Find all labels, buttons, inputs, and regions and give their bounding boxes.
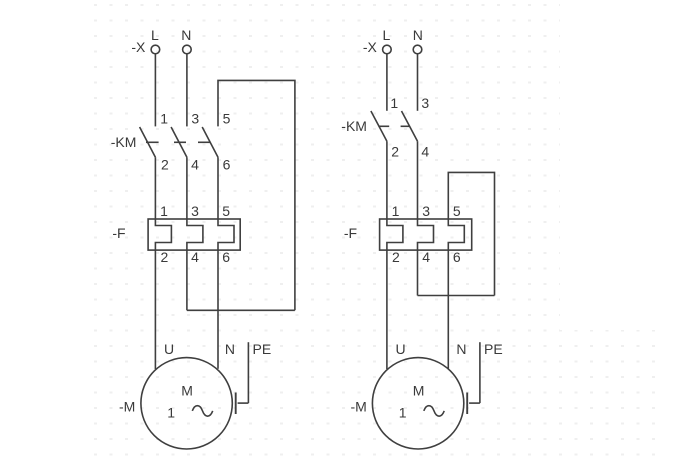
terminal circle N (left) xyxy=(183,45,192,54)
KM pole1 blade (right) xyxy=(371,111,387,141)
svg-text:6: 6 xyxy=(222,249,230,265)
wire loop pole3 top (left): up, right, down xyxy=(218,80,295,310)
wire KM pole1 to F (left) xyxy=(154,157,156,219)
svg-text:N: N xyxy=(225,341,235,357)
svg-text:-F: -F xyxy=(344,225,357,241)
svg-text:3: 3 xyxy=(191,110,199,126)
F heater element pole1 (left) xyxy=(155,219,171,250)
wire L to KM pole1 (right) xyxy=(386,54,388,111)
wire F pole1 to motor U (right) xyxy=(386,250,388,369)
wire horizontal pole2 to loop (right) xyxy=(418,295,495,297)
PE terminal bar (left) xyxy=(235,393,237,415)
svg-text:5: 5 xyxy=(222,203,230,219)
svg-text:2: 2 xyxy=(161,249,169,265)
wire PE horizontal (right) xyxy=(469,402,480,404)
wire KM pole2 to F (left) xyxy=(186,157,188,219)
svg-text:-X: -X xyxy=(131,39,146,55)
svg-text:4: 4 xyxy=(191,249,199,265)
svg-text:1: 1 xyxy=(390,95,398,111)
svg-text:5: 5 xyxy=(223,110,231,126)
svg-text:1: 1 xyxy=(392,203,400,219)
svg-text:2: 2 xyxy=(391,144,399,160)
F heater element pole2 (left) xyxy=(187,219,203,250)
overload relay F box (right) xyxy=(380,219,472,250)
svg-text:5: 5 xyxy=(453,203,461,219)
svg-text:N: N xyxy=(456,341,466,357)
PE terminal bar (right) xyxy=(466,393,468,415)
motor M2 circle (right) xyxy=(372,358,463,449)
KM pole2 blade (left) xyxy=(171,127,187,157)
KM pole3 blade (left) xyxy=(202,127,218,157)
wire PE horizontal (left) xyxy=(238,402,249,404)
svg-text:-KM: -KM xyxy=(341,118,367,134)
wire L to KM pole1 (left) xyxy=(154,54,156,126)
F heater element pole1 (right) xyxy=(387,219,403,250)
KM linkage dashed line (left) xyxy=(146,141,210,143)
F heater element pole3 (left) xyxy=(218,219,234,250)
svg-text:-F: -F xyxy=(112,225,125,241)
KM pole2 blade (right) xyxy=(402,111,418,141)
svg-text:3: 3 xyxy=(191,203,199,219)
terminal circle L (right) xyxy=(383,45,392,54)
svg-text:3: 3 xyxy=(421,95,429,111)
wire horizontal pole2 to loop (left) xyxy=(187,309,295,311)
svg-text:6: 6 xyxy=(453,249,461,265)
terminal circle N (right) xyxy=(413,45,422,54)
svg-text:-M: -M xyxy=(119,399,135,415)
svg-text:1: 1 xyxy=(167,405,175,421)
svg-text:M: M xyxy=(413,383,425,399)
wire F pole2 down to junction (right) xyxy=(417,250,419,295)
wire loop F pole3 (right): up, right, down xyxy=(448,172,494,295)
wire KM pole2 to F (right) xyxy=(417,141,419,219)
svg-text:1: 1 xyxy=(160,110,168,126)
svg-text:4: 4 xyxy=(191,157,199,173)
svg-text:-X: -X xyxy=(363,39,378,55)
svg-text:4: 4 xyxy=(421,144,429,160)
svg-text:1: 1 xyxy=(160,203,168,219)
svg-text:U: U xyxy=(396,341,406,357)
svg-text:6: 6 xyxy=(223,157,231,173)
svg-text:M: M xyxy=(181,383,193,399)
motor M1 circle (left) xyxy=(141,358,232,449)
wire F pole3 to motor N (left) xyxy=(217,250,219,369)
svg-text:L: L xyxy=(383,27,391,43)
wire F pole1 to motor U (left) xyxy=(154,250,156,369)
overload relay F box (left) xyxy=(148,219,240,250)
svg-text:PE: PE xyxy=(253,341,272,357)
svg-text:2: 2 xyxy=(392,249,400,265)
wire PE vertical (right) xyxy=(479,342,481,403)
svg-text:1: 1 xyxy=(399,405,407,421)
svg-text:N: N xyxy=(413,27,423,43)
terminal circle L (left) xyxy=(151,45,160,54)
KM linkage dashed line (right) xyxy=(379,125,410,127)
F heater element pole3 (right) xyxy=(448,219,464,250)
motor sine symbol (right) xyxy=(424,406,444,417)
wire KM pole3 to F (left) xyxy=(217,157,219,219)
motor sine symbol (left) xyxy=(192,406,212,417)
wire KM pole1 to F (right) xyxy=(386,141,388,219)
wire PE vertical (left) xyxy=(247,342,249,403)
wire F pole3 to motor N (right) xyxy=(447,250,449,369)
wire N to KM pole2 (right) xyxy=(417,54,419,111)
wire N to KM pole2 (left) xyxy=(186,54,188,126)
svg-text:3: 3 xyxy=(422,203,430,219)
svg-text:2: 2 xyxy=(161,157,169,173)
svg-text:4: 4 xyxy=(422,249,430,265)
wire F pole2 down to junction (left) xyxy=(186,250,188,310)
F heater element pole2 (right) xyxy=(418,219,434,250)
svg-text:PE: PE xyxy=(484,341,503,357)
svg-text:L: L xyxy=(151,27,159,43)
svg-text:U: U xyxy=(164,341,174,357)
svg-text:N: N xyxy=(181,27,191,43)
svg-text:-KM: -KM xyxy=(111,134,137,150)
KM pole1 blade (left) xyxy=(140,127,156,157)
svg-text:-M: -M xyxy=(351,399,367,415)
